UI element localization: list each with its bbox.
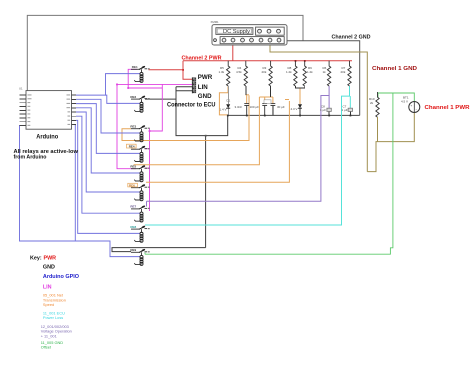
svg-text:Channel 2 GND: Channel 2 GND bbox=[332, 35, 371, 41]
svg-text:DC Supply: DC Supply bbox=[223, 29, 251, 35]
svg-text:1.2k: 1.2k bbox=[286, 70, 292, 74]
svg-text:3.3nF: 3.3nF bbox=[235, 105, 243, 109]
svg-text:RE2: RE2 bbox=[130, 95, 136, 99]
svg-text:RE8: RE8 bbox=[130, 225, 136, 229]
svg-text:1.4 V: 1.4 V bbox=[220, 108, 227, 112]
svg-text:1.3k: 1.3k bbox=[219, 70, 225, 74]
svg-text:30 µF: 30 µF bbox=[277, 105, 285, 109]
svg-text:GND: GND bbox=[198, 93, 212, 100]
svg-text:RE4: RE4 bbox=[129, 145, 135, 149]
svg-text:1k: 1k bbox=[323, 70, 327, 74]
svg-text:D1: D1 bbox=[227, 99, 231, 103]
svg-text:1 µF: 1 µF bbox=[320, 108, 326, 112]
svg-text:GND: GND bbox=[43, 265, 55, 271]
svg-text:from Arduino: from Arduino bbox=[14, 154, 47, 160]
svg-text:U1: U1 bbox=[19, 87, 23, 91]
svg-text:Channel 1 GND: Channel 1 GND bbox=[372, 66, 417, 72]
svg-text:+ 11_001: + 11_001 bbox=[41, 333, 57, 338]
svg-text:Connector to ECU: Connector to ECU bbox=[167, 101, 216, 108]
svg-text:Channel 1 PWR: Channel 1 PWR bbox=[425, 105, 470, 111]
svg-text:LIN: LIN bbox=[43, 285, 52, 291]
svg-text:LIN: LIN bbox=[198, 84, 208, 91]
svg-text:Arduino GPIO: Arduino GPIO bbox=[43, 274, 79, 280]
svg-text:20k: 20k bbox=[341, 70, 346, 74]
svg-text:RE9: RE9 bbox=[130, 248, 136, 252]
svg-text:Arduino: Arduino bbox=[36, 134, 58, 140]
svg-text:RE5: RE5 bbox=[130, 164, 136, 168]
svg-text:PWR: PWR bbox=[44, 256, 57, 262]
svg-text:RE1: RE1 bbox=[132, 65, 138, 69]
svg-text:1 µF: 1 µF bbox=[342, 108, 348, 112]
svg-text:RE6: RE6 bbox=[129, 183, 135, 187]
svg-text:Channel 2 PWR: Channel 2 PWR bbox=[182, 55, 222, 61]
svg-text:RE7: RE7 bbox=[130, 204, 136, 208]
svg-text:100 µF: 100 µF bbox=[250, 105, 260, 109]
svg-text:PWR: PWR bbox=[198, 74, 213, 81]
svg-text:4.5 V: 4.5 V bbox=[401, 100, 408, 104]
svg-text:Speed: Speed bbox=[43, 302, 54, 307]
svg-text:4.3 V: 4.3 V bbox=[291, 107, 298, 111]
svg-text:XMM1: XMM1 bbox=[211, 20, 220, 24]
svg-text:Power Loss: Power Loss bbox=[43, 315, 63, 320]
svg-text:Key:: Key: bbox=[30, 256, 42, 262]
svg-text:RE3: RE3 bbox=[130, 124, 136, 128]
svg-text:Offset: Offset bbox=[41, 345, 52, 350]
svg-text:2k: 2k bbox=[370, 101, 374, 105]
svg-text:4.5k: 4.5k bbox=[236, 70, 242, 74]
svg-text:1.2k: 1.2k bbox=[307, 70, 313, 74]
svg-text:20k: 20k bbox=[262, 70, 267, 74]
svg-text:−: − bbox=[416, 108, 418, 112]
svg-text:+: + bbox=[411, 104, 413, 108]
